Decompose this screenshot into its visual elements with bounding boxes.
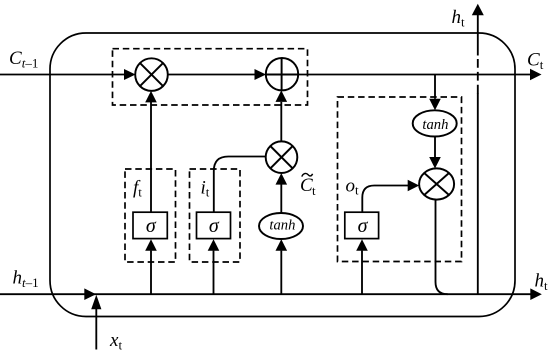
svg-text:ft: ft [133,178,142,200]
output-gate dashed box o [338,97,462,262]
wire sigma-o to X3 (curved) [362,180,419,213]
wire C_t output [298,69,542,81]
wire sigma-f to X1 [145,91,157,212]
wire x_t input [91,295,101,350]
wire h_{t-1} bottom line with h_t output arrow [0,288,542,300]
wire h_t up to top (solid part) [477,93,479,294]
svg-text:tanh: tanh [269,218,295,234]
svg-text:it: it [201,178,210,200]
svg-text:σ: σ [209,215,220,237]
wire h-line to sigma-o [356,239,368,294]
svg-text:σ: σ [146,215,157,237]
svg-text:ht: ht [452,7,466,30]
wire h_t up to top (dashed part with arrow) [472,4,484,94]
wire X2 to adder [276,90,288,141]
wire tanh to X2 [276,173,288,213]
wire X3 down to h-line (curved) [436,200,448,295]
forget-gate dashed box f [125,169,176,262]
sigma box f (forget gate sigmoid) [133,212,167,238]
add node (+) [266,58,298,90]
wire sigma-i to X2 (curved) [214,157,266,213]
sigma box i (input gate sigmoid) [197,212,231,238]
cell-state dashed group box (around forget-multiply and add nodes) [113,49,308,105]
LSTM cell body rounded rectangle [50,33,515,317]
multiply node X2 (input multiply) [266,141,298,173]
svg-text:t: t [312,183,316,198]
svg-text:ht–1: ht–1 [13,268,39,291]
wire X1 to adder [168,69,267,80]
wire tanh to X3 [429,137,441,169]
sigma box o (output gate sigmoid) [345,212,379,238]
svg-text:ot: ot [346,175,360,197]
wire C-line down to tanh (output) [429,75,441,111]
label C~_t (candidate) [300,173,316,198]
junction arrow on h-line after x_t joins [84,288,96,300]
input-gate dashed box i [190,169,241,262]
wire h-line to tanh (candidate) [276,239,288,294]
svg-text:ht: ht [535,271,549,294]
multiply node X1 (forget multiply) [135,58,168,91]
wire h-line to sigma-i [208,239,220,294]
wire h-line to sigma-f [145,239,157,294]
svg-text:Ct–1: Ct–1 [9,48,38,71]
svg-text:Ct: Ct [527,50,544,73]
svg-text:xt: xt [109,330,122,353]
wire C_{t-1} input [0,69,136,80]
tanh ellipse (candidate C~) [259,213,303,239]
multiply node X3 (output multiply) [419,168,454,199]
svg-text:σ: σ [358,215,369,237]
tanh ellipse (output) [413,110,457,136]
svg-text:tanh: tanh [422,117,448,133]
